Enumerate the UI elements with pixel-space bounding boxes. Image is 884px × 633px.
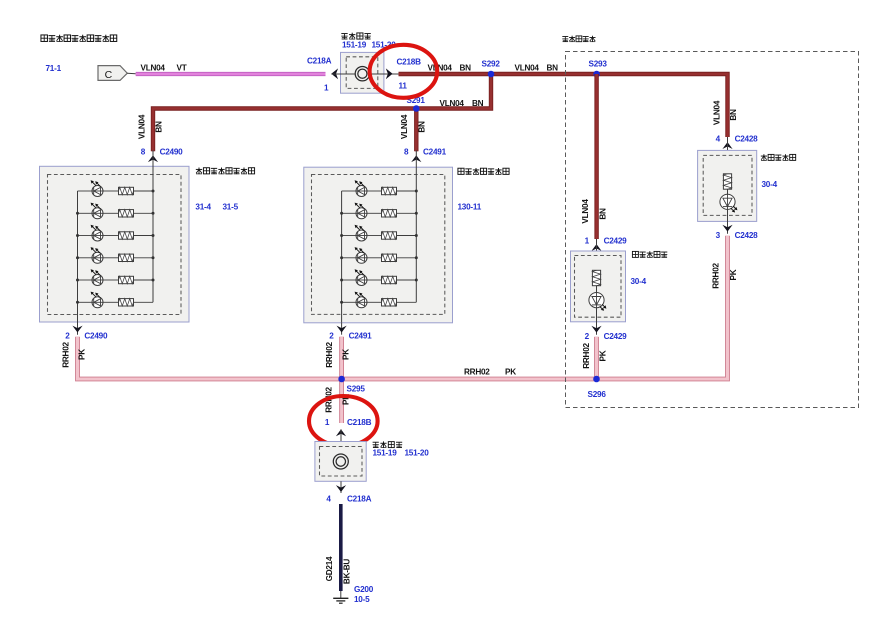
red annotation ellipse around C218B pin 1 — [309, 396, 378, 446]
svg-text:C2490: C2490 — [160, 148, 184, 157]
LED D10 + resistor row 4 (right switch) — [340, 247, 418, 263]
svg-text:RRH02: RRH02 — [62, 342, 71, 368]
svg-text:151-20: 151-20 — [405, 449, 430, 458]
wire LED to box bottom (left paddle) — [596, 308, 598, 328]
svg-text:BK-BU: BK-BU — [342, 559, 351, 584]
svg-text:GD214: GD214 — [325, 556, 334, 581]
svg-text:4: 4 — [326, 494, 331, 503]
svg-text:C2429: C2429 — [604, 332, 628, 341]
LED D1 + resistor row 1 (left switch) — [78, 180, 155, 196]
svg-text:RRH02: RRH02 — [464, 368, 490, 377]
svg-text:PK: PK — [729, 269, 738, 280]
svg-text:S296: S296 — [588, 390, 607, 399]
svg-text:BN: BN — [155, 121, 164, 133]
label: instrument cluster text 组合仪表和仪表板照明 — [41, 35, 117, 42]
svg-text:S293: S293 — [589, 60, 608, 69]
svg-text:BN: BN — [417, 121, 426, 133]
svg-text:4: 4 — [716, 135, 721, 144]
wire LED to box bottom (right paddle) — [727, 209, 729, 224]
svg-text:C2490: C2490 — [84, 332, 108, 341]
page refs 151-19 151-20 (bottom) — [373, 449, 430, 458]
page ref 30-4 (left paddle) — [631, 277, 647, 286]
svg-text:C218B: C218B — [397, 58, 422, 67]
svg-text:G200: G200 — [354, 585, 374, 594]
label VLN04 BN vertical (left drop) — [138, 114, 164, 139]
wire pin8 entry to right bus (middle box) — [415, 150, 417, 302]
junction S296 — [588, 376, 607, 399]
svg-text:BN: BN — [472, 99, 484, 108]
label G200 10-5 — [354, 585, 374, 604]
LED D12 + resistor row 6 (right switch) — [340, 292, 416, 308]
svg-text:1: 1 — [324, 84, 329, 93]
svg-text:C2429: C2429 — [604, 237, 628, 246]
svg-text:C: C — [105, 69, 113, 81]
svg-text:71-1: 71-1 — [46, 64, 62, 73]
LED D11 + resistor row 5 (right switch) — [340, 269, 418, 285]
LED D8 + resistor row 2 (right switch) — [340, 203, 418, 219]
wire S292 down to lower bus (maroon) — [153, 74, 491, 151]
wire GD214 BK-BU ground wire (navy) — [339, 504, 343, 591]
svg-text:BN: BN — [460, 64, 472, 73]
svg-text:130-11: 130-11 — [458, 203, 482, 212]
svg-text:VLN04: VLN04 — [428, 64, 453, 73]
svg-text:31-4: 31-4 — [195, 203, 211, 212]
svg-text:VT: VT — [177, 64, 187, 73]
label VLN04 BN (C218B-S292) — [428, 64, 472, 73]
svg-text:2: 2 — [585, 332, 590, 341]
label VLN04 BN (S292-S293) — [515, 64, 559, 73]
wire RRH02 PK C2491 down to S295 down to C218B (pink) — [339, 337, 344, 423]
svg-text:BN: BN — [729, 109, 738, 121]
svg-text:8: 8 — [141, 148, 146, 157]
svg-text:VLN04: VLN04 — [138, 114, 147, 139]
svg-text:VLN04: VLN04 — [400, 114, 409, 139]
right paddle shifter box — [698, 137, 757, 221]
svg-text:RRH02: RRH02 — [711, 263, 720, 289]
svg-text:8: 8 — [404, 148, 409, 157]
resistor (left paddle) — [592, 270, 600, 285]
label RRH02 PK (horizontal bus) — [464, 368, 516, 377]
junction S291 — [407, 96, 426, 112]
svg-text:RRH02: RRH02 — [325, 342, 334, 368]
svg-text:VLN04: VLN04 — [713, 100, 722, 125]
connector C218B pin 1 arrow (bottom) — [325, 418, 372, 436]
LED D6 + resistor row 6 (left switch) — [76, 292, 153, 308]
svg-text:VLN04: VLN04 — [581, 199, 590, 224]
svg-text:3: 3 — [716, 231, 721, 240]
svg-text:PK: PK — [78, 349, 87, 360]
svg-text:2: 2 — [329, 332, 334, 341]
svg-text:PK: PK — [505, 368, 516, 377]
wire VLN04 VT (violet) — [136, 72, 326, 76]
svg-text:151-19: 151-19 — [342, 41, 367, 50]
svg-text:C218A: C218A — [347, 494, 372, 503]
label VLN04 BN vertical (S293 drop) — [581, 199, 607, 224]
ground G200 symbol — [333, 591, 348, 603]
connector C2491 pin 2 arrow — [329, 323, 372, 341]
clock spring U1 (top) — [331, 52, 399, 93]
paddle shifter dashed area box — [566, 52, 859, 408]
svg-text:PK: PK — [599, 350, 608, 361]
label VLN04 BN vertical (middle drop) — [400, 114, 426, 139]
LED (right paddle) — [720, 194, 738, 212]
clock spring U1 (bottom) — [315, 429, 366, 486]
label GD214 BK-BU vertical — [325, 556, 351, 584]
svg-text:C218B: C218B — [347, 418, 372, 427]
svg-text:11: 11 — [399, 82, 408, 91]
svg-text:31-5: 31-5 — [223, 203, 239, 212]
connector C2428 pin 4 arrow — [716, 135, 759, 150]
label RRH02 PK vertical (above S295) — [325, 342, 350, 368]
turn signal switch right: box — [304, 167, 453, 323]
connector C2429 pin 2 arrow — [585, 323, 628, 341]
svg-text:10-5: 10-5 — [354, 595, 370, 604]
svg-text:1: 1 — [325, 418, 330, 427]
svg-text:VLN04: VLN04 — [141, 64, 166, 73]
LED D4 + resistor row 4 (left switch) — [76, 247, 155, 263]
wire RRH02 PK horizontal bus S295-S296-C2428 (pink) — [342, 236, 728, 379]
wire pin8 entry to right bus (left box) — [152, 150, 154, 302]
wire resistor to LED (left paddle) — [596, 286, 598, 293]
svg-text:C2428: C2428 — [735, 135, 759, 144]
LED D9 + resistor row 3 (right switch) — [340, 225, 418, 241]
connector C218B pin 11 arrow — [386, 68, 393, 79]
label RRH02 PK vertical (below S295) — [325, 387, 351, 413]
label RRH02 PK vertical (C2428 pink drop) — [711, 263, 737, 289]
wire S291 down to C2491 (maroon) — [414, 109, 418, 152]
connector C2490 pin 8 arrow — [141, 148, 183, 163]
svg-text:C218A: C218A — [307, 57, 332, 66]
wire left bus (left box) — [77, 191, 79, 322]
connector C2491 pin 8 arrow — [404, 148, 447, 163]
page ref 30-4 (right paddle) — [762, 180, 778, 189]
junction S293 — [589, 60, 608, 78]
LED D5 + resistor row 5 (left switch) — [76, 269, 155, 285]
connector C2428 pin 3 arrow — [716, 221, 759, 239]
svg-text:30-4: 30-4 — [631, 277, 647, 286]
connector C218A pin 4 arrow (bottom) — [326, 481, 371, 503]
left paddle shifter box — [571, 239, 626, 322]
label RRH02 PK vertical (left paddle drop) — [582, 343, 608, 369]
connector C2429 pin 1 arrow — [585, 237, 628, 252]
label VLN04 VT — [141, 64, 187, 73]
junction S295 — [338, 376, 365, 394]
svg-text:S292: S292 — [482, 60, 501, 69]
wire RRH02 PK from C2490 down and right (pink) — [78, 337, 342, 379]
label 右侧方向盘开关 — [458, 168, 509, 175]
svg-text:RRH02: RRH02 — [582, 343, 591, 369]
LED D2 + resistor row 2 (left switch) — [76, 203, 155, 219]
page refs 31-4 31-5 — [195, 203, 238, 212]
wire left bus (middle box) — [341, 191, 343, 323]
LED D3 + resistor row 3 (left switch) — [76, 225, 155, 241]
label 时钟弹簧 (bottom) — [373, 441, 403, 447]
page refs 151-19 151-20 (top) — [342, 41, 396, 50]
label VLN04 BN (right of S291) — [440, 99, 484, 108]
wire VLN04 BN C218B to S292 to S293 to corner (maroon) — [399, 74, 728, 137]
label 方向盘开关，左侧 — [196, 168, 255, 175]
svg-text:30-4: 30-4 — [762, 180, 778, 189]
LED D7 + resistor row 1 (right switch) — [342, 180, 418, 196]
svg-text:VLN04: VLN04 — [440, 99, 465, 108]
svg-text:C2491: C2491 — [423, 148, 447, 157]
label RRH02 PK vertical (left pink drop) — [62, 342, 87, 368]
wire S293 down to C2429 (maroon) — [594, 74, 598, 239]
wire resistor to LED (right paddle) — [727, 189, 729, 194]
label C218A / pin 1 — [307, 57, 332, 93]
svg-text:C2491: C2491 — [349, 332, 373, 341]
label 带换档拨片 — [562, 36, 595, 42]
svg-text:2: 2 — [65, 332, 70, 341]
connector C2490 pin 2 arrow — [65, 322, 108, 341]
svg-text:BN: BN — [547, 64, 559, 73]
turn signal switch left: box — [40, 166, 190, 322]
connector C218A pin 1 arrow — [331, 68, 338, 79]
label 时钟弹簧 (top) — [341, 33, 370, 40]
wire RRH02 PK C2429 down to S296 (pink) — [594, 337, 599, 379]
LED (left paddle) — [589, 293, 607, 311]
resistor (right paddle) — [723, 174, 731, 189]
label 右换档拨片 — [761, 154, 796, 160]
svg-text:151-19: 151-19 — [373, 449, 398, 458]
label C218B / pin 11 — [397, 58, 422, 91]
svg-text:C2428: C2428 — [735, 231, 759, 240]
svg-text:PK: PK — [341, 349, 350, 360]
svg-text:S295: S295 — [347, 385, 366, 394]
label VLN04 BN vertical (C2428 drop) — [713, 100, 739, 125]
label 左换档拨片 — [632, 251, 667, 257]
red annotation ellipse around C218B — [370, 45, 438, 98]
svg-text:1: 1 — [585, 237, 590, 246]
page ref 71-1 — [46, 64, 62, 73]
svg-text:BN: BN — [598, 208, 607, 220]
connector C flag — [98, 66, 136, 81]
junction S292 — [482, 60, 501, 78]
page ref 130-11 — [458, 203, 482, 212]
svg-text:VLN04: VLN04 — [515, 64, 540, 73]
